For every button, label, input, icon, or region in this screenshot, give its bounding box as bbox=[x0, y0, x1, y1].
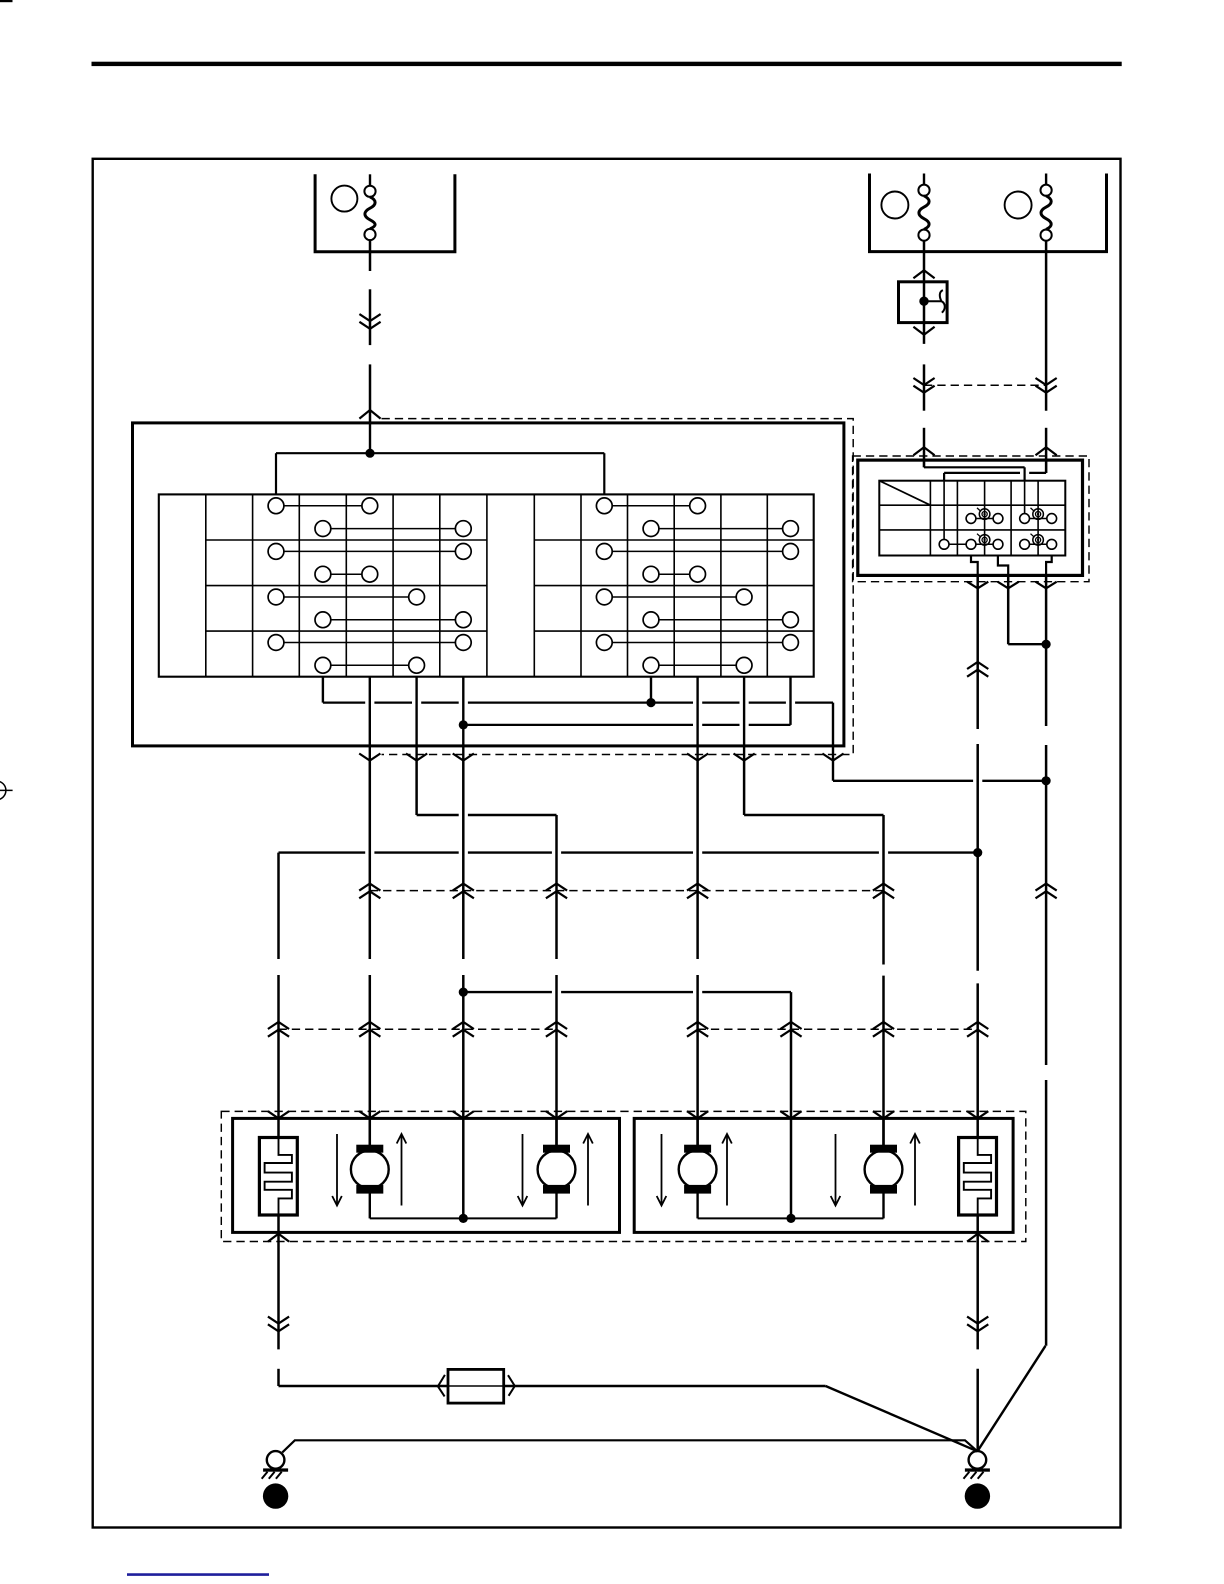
wire jog x=416.6 to x=556.5 (y=815) bbox=[417, 760, 557, 815]
wire grid exit x=697.6 down through switch bbox=[696, 677, 698, 761]
master switch contact table outline bbox=[159, 494, 814, 676]
blue footer link underline bbox=[127, 1573, 269, 1576]
sub switch output jog 1 (to x=977.7) bbox=[971, 556, 978, 576]
sub switch contact group A row2 bbox=[966, 508, 1003, 523]
wire grid exit x=369.8 down through switch bbox=[369, 677, 371, 761]
motor box input connectors (single chevrons) bbox=[268, 1111, 988, 1118]
connector (double chevron) on CB1 ground wire bbox=[268, 1324, 289, 1331]
right grid row2 upper contact pair bbox=[596, 544, 798, 560]
down arrow (M1 left) bbox=[332, 1134, 342, 1206]
junction dot left bridge bbox=[459, 1214, 468, 1223]
right grid row4 lower contact pair bbox=[643, 657, 752, 673]
joint connector branch line and hook bbox=[924, 290, 945, 313]
ground (left body) dot bbox=[263, 1483, 288, 1508]
junction dot H1/x651 bbox=[646, 698, 655, 707]
ground (right body) dot bbox=[965, 1483, 990, 1508]
joint connector box bbox=[899, 282, 948, 323]
connector row B dashed link left run bbox=[279, 1028, 557, 1030]
wire lane x=697.6 (motor M3 feed) bbox=[696, 760, 699, 959]
down arrow (M2 left) bbox=[518, 1134, 528, 1206]
connector (double chevron) on F2 wire y=385 bbox=[913, 386, 934, 393]
connector row B dashed link right run bbox=[698, 1028, 978, 1030]
connector (double chevron) on x=977.7 y=662 bbox=[967, 662, 988, 669]
junction dot right bridge bbox=[786, 1214, 795, 1223]
wire grid exit x=322.9 to bus H1 bbox=[322, 677, 324, 703]
fusible link box (left, open-top) bbox=[315, 174, 455, 252]
right grid row4 upper contact pair bbox=[596, 635, 798, 651]
wire grid exit x=463.3 down through switch bbox=[462, 677, 464, 761]
connector (double chevron) on F3 wire y=385 bbox=[1036, 386, 1057, 393]
fuse F2 bbox=[918, 174, 929, 241]
junction dot at feed bus bbox=[365, 449, 374, 458]
junction dot (977.7,852.6) bbox=[973, 848, 982, 857]
left grid row1 lower contact pair bbox=[315, 521, 471, 537]
sub switch table column lines bbox=[930, 481, 1038, 556]
window motor M4 bbox=[865, 1118, 903, 1218]
sub switch row3 lone contact bbox=[939, 539, 966, 549]
feed bus wire inside switch bbox=[276, 452, 604, 454]
feed drop to left contact grid bbox=[275, 453, 277, 494]
junction dot (463.3,992.1) bbox=[459, 988, 468, 997]
in-line connector on ground wire bbox=[438, 1369, 515, 1403]
wire lane x=977.7 below sub switch bbox=[976, 575, 979, 729]
left grid row2 upper contact pair bbox=[268, 544, 471, 560]
wire grid exit x=744.1 down through switch bbox=[743, 677, 745, 761]
right grid row3 lower contact pair bbox=[643, 612, 798, 628]
sub switch contact group B row3 bbox=[1020, 534, 1057, 549]
junction dot (1046.1,780.8) bbox=[1042, 776, 1051, 785]
wire lane x=883.5 (motor M4 feed) bbox=[882, 815, 885, 965]
up arrow (M4 right) bbox=[910, 1134, 920, 1206]
wire lane x=1046.1 below sub switch bbox=[1045, 575, 1048, 726]
left grid row1 upper contact pair bbox=[268, 498, 378, 514]
left grid row4 lower contact pair bbox=[315, 657, 425, 673]
connector (double chevron) on CB2 ground wire bbox=[967, 1324, 988, 1331]
window motor M1 bbox=[351, 1118, 389, 1218]
wire lane x=278.5 (circuit breaker feed, left) bbox=[277, 853, 280, 959]
fuse F3 bbox=[1041, 174, 1052, 241]
connector row A (double chevrons, y=884) bbox=[359, 884, 894, 899]
wire grid exit x=651 to bus H1 bbox=[650, 677, 652, 703]
power window master switch dashed outline bbox=[382, 419, 854, 755]
right grid row1 upper contact pair bbox=[596, 498, 705, 514]
sub switch table row lines bbox=[879, 505, 1065, 530]
power window master switch body bbox=[133, 423, 844, 746]
connector (double chevron) on F1 wire bbox=[359, 322, 380, 329]
power window sub switch body bbox=[858, 460, 1083, 575]
sub switch contact group B row2 bbox=[1020, 508, 1057, 523]
connector (single chevron) below joint connector bbox=[913, 327, 934, 335]
page frame border bbox=[93, 159, 1121, 1528]
sub switch contact table outline bbox=[879, 481, 1065, 556]
wire x=833 to sub-switch ground lane (y=780.8) bbox=[833, 780, 973, 782]
circuit number circle (fuse F3) bbox=[1005, 192, 1032, 219]
wire link x=1008.2 to x=1046.1 (y=644.2) bbox=[1008, 643, 1046, 645]
connector (single chevron) above joint connector bbox=[913, 270, 934, 278]
branch bus y=992.1 from x=463.3 to x=791 bbox=[463, 991, 552, 993]
top horizontal rule bbox=[92, 62, 1122, 66]
connector row A chevron on x=1046.1 bbox=[1036, 884, 1057, 891]
contact table row lines bbox=[206, 540, 814, 631]
junction dot H2/x463.3 bbox=[459, 720, 468, 729]
sub switch output connectors (single chevrons) bbox=[967, 582, 1057, 589]
left grid row3 lower contact pair bbox=[315, 612, 471, 628]
wire jog x=744.1 to x=883.5 (y=815) bbox=[744, 760, 883, 815]
ground (right body) bbox=[964, 1451, 990, 1479]
sub switch internal feed from x=1046.1 bbox=[944, 460, 1046, 481]
circuit breaker CB1 (left) bbox=[259, 1138, 297, 1216]
up arrow (M2 right) bbox=[583, 1134, 593, 1206]
wire lane x=463.3 (left bridge feed) bbox=[462, 760, 465, 959]
motor box output connectors (single chevrons) bbox=[268, 1234, 988, 1242]
sub switch output jog 2 (to x=1008.2) bbox=[998, 556, 1008, 576]
sub switch contact group A row3 bbox=[966, 534, 1003, 549]
connector (single chevron) at master switch input bbox=[359, 410, 380, 419]
up arrow (M3 right) bbox=[722, 1134, 732, 1206]
joint connector dot bbox=[919, 297, 928, 306]
shared ground wire between ground points bbox=[282, 1440, 977, 1452]
circuit breaker CB2 (right) bbox=[959, 1138, 997, 1216]
wire lane x=791 (right bridge feed) bbox=[790, 992, 793, 1218]
fusible link box (right, open-top) bbox=[870, 174, 1107, 252]
left grid row4 upper contact pair bbox=[268, 635, 471, 651]
bus H2 inside master switch (y=724.9) bbox=[463, 724, 693, 726]
down arrow (M3 left) bbox=[657, 1134, 667, 1206]
wire F2 to sub switch (x=924) bbox=[923, 240, 926, 344]
right grid row3 upper contact pair bbox=[596, 589, 752, 605]
left bridge wire between motors bbox=[370, 1217, 557, 1219]
dashed link between F2/F3 connectors bbox=[924, 384, 1046, 386]
left window regulator body bbox=[233, 1118, 620, 1232]
junction dot (1046.1,644.2) bbox=[1042, 640, 1051, 649]
door window motors dashed outline bbox=[221, 1111, 1026, 1241]
power window sub switch dashed outline bbox=[853, 456, 1089, 582]
wire lane x=369.8 (motor M1 feed) bbox=[369, 760, 372, 959]
sub switch feed stub to row3 lone contact bbox=[943, 481, 945, 540]
left grid row3 upper contact pair bbox=[268, 589, 424, 605]
wire grid exit x=790.5 to bus H2 bbox=[789, 677, 791, 725]
wire grid exit x=416.6 down through switch bbox=[415, 677, 417, 761]
bus H1 inside master switch (y=702.6) bbox=[323, 701, 365, 703]
right grid row1 lower contact pair bbox=[643, 521, 798, 537]
wire into switch from top bbox=[369, 423, 371, 453]
wire lane x=1008.2 below sub switch bbox=[1007, 575, 1010, 644]
sub switch table corner diagonal bbox=[879, 481, 930, 506]
connector (single chevron) at sub switch input x=924 bbox=[913, 447, 934, 455]
F3 lane diagonal to ground point bbox=[977, 1346, 1045, 1452]
connector (single chevron) at sub switch input x=1046.1 bbox=[1036, 447, 1057, 455]
connector row B (double chevrons, y=1022) bbox=[268, 1022, 988, 1037]
right grid row2 lower contact pair bbox=[643, 566, 705, 582]
crossover bus y=852.6 from x=278.5 to x=977.7 bbox=[279, 851, 366, 853]
printer crop mark (top-left corner) bbox=[0, 0, 13, 2]
sub switch output jog 3 (to x=1046.1) bbox=[1046, 556, 1052, 576]
circuit number circle (fuse F2) bbox=[881, 192, 908, 219]
window motor M2 bbox=[538, 1118, 576, 1218]
right window regulator body bbox=[634, 1118, 1013, 1232]
up arrow (M1 right) bbox=[397, 1134, 407, 1206]
master switch output connectors (single chevrons) bbox=[359, 754, 843, 761]
fuse F1 bbox=[364, 174, 375, 240]
wire bus H1 drop x=833 out of switch bbox=[832, 703, 834, 781]
sub switch feed stub to row2 left contact of group B bbox=[1024, 481, 1026, 514]
circuit number circle (left fuse box) bbox=[331, 186, 357, 212]
wire F3 down (x=1046.1) bbox=[1045, 240, 1048, 411]
sub switch internal feed from x=924 bbox=[924, 460, 1025, 481]
contact table column lines bbox=[206, 494, 768, 676]
feed drop to right contact grid bbox=[603, 453, 605, 494]
connector row A dashed link bbox=[370, 890, 884, 892]
left grid row2 lower contact pair bbox=[315, 566, 378, 582]
wire lane x=556.5 (motor M2 feed) bbox=[555, 815, 558, 959]
CB1 ground wire run to the right bbox=[279, 1386, 978, 1451]
right bridge wire between motors bbox=[698, 1217, 884, 1219]
wire F1 to master switch (x=370) bbox=[369, 239, 372, 271]
ground (left body) bbox=[262, 1451, 288, 1479]
registration mark (left page edge) bbox=[0, 781, 13, 800]
window motor M3 bbox=[679, 1118, 717, 1218]
down arrow (M4 left) bbox=[831, 1134, 841, 1206]
